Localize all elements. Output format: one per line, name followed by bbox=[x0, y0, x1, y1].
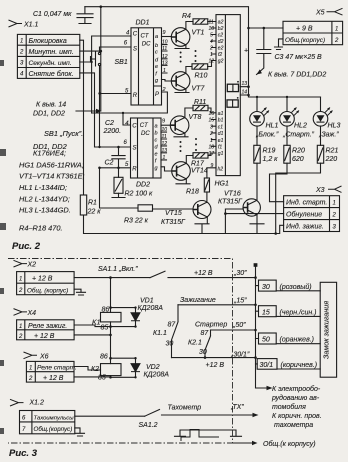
svg-text:Общ.(корпус): Общ.(корпус) bbox=[285, 36, 325, 44]
svg-text:Замок зажигания: Замок зажигания bbox=[322, 301, 331, 359]
svg-text:(коричнев.): (коричнев.) bbox=[281, 362, 318, 369]
svg-text:Секундн. имп.: Секундн. имп. bbox=[29, 59, 72, 67]
svg-text:e2: e2 bbox=[218, 46, 224, 52]
svg-text:Тахометр: Тахометр bbox=[168, 405, 202, 412]
svg-text:„ТХ”: „ТХ” bbox=[230, 404, 244, 411]
svg-text:a: a bbox=[155, 34, 158, 40]
svg-text:9: 9 bbox=[163, 30, 166, 36]
svg-text:10: 10 bbox=[162, 127, 168, 133]
svg-text:2: 2 bbox=[334, 38, 339, 44]
svg-text:CT: CT bbox=[141, 34, 150, 40]
svg-text:e1: e1 bbox=[218, 138, 224, 144]
svg-text:b2: b2 bbox=[218, 26, 224, 32]
svg-text:30: 30 bbox=[262, 284, 270, 291]
svg-text:c1: c1 bbox=[218, 124, 224, 130]
svg-text:+12 В: +12 В bbox=[206, 362, 225, 369]
svg-text:9: 9 bbox=[162, 119, 165, 125]
svg-text:4: 4 bbox=[210, 39, 213, 45]
svg-text:18: 18 bbox=[209, 145, 215, 151]
svg-text:87: 87 bbox=[201, 330, 210, 337]
svg-text:Реле зажиг.: Реле зажиг. bbox=[28, 323, 67, 330]
svg-text:a2: a2 bbox=[218, 20, 224, 26]
svg-text:C: C bbox=[132, 124, 137, 130]
svg-text:X2: X2 bbox=[27, 262, 37, 269]
svg-text:11: 11 bbox=[162, 46, 167, 52]
svg-text:13: 13 bbox=[162, 60, 168, 66]
svg-text:Общ. (корпус): Общ. (корпус) bbox=[27, 286, 68, 294]
svg-text:Зажигание: Зажигание bbox=[180, 297, 216, 304]
svg-text:+ 12 В: + 12 В bbox=[43, 375, 64, 382]
svg-text:Обнуление: Обнуление bbox=[286, 211, 322, 219]
svg-text:1: 1 bbox=[163, 155, 166, 161]
svg-text:c: c bbox=[155, 138, 158, 144]
svg-text:S: S bbox=[133, 146, 137, 152]
svg-text:„Блок.”: „Блок.” bbox=[255, 132, 279, 139]
svg-text:3: 3 bbox=[210, 124, 213, 130]
svg-text:1: 1 bbox=[335, 27, 338, 33]
svg-text:VT8: VT8 bbox=[189, 114, 202, 121]
svg-text:X5: X5 bbox=[315, 10, 325, 17]
svg-text:b: b bbox=[155, 43, 158, 49]
svg-text:K1: K1 bbox=[92, 320, 101, 327]
svg-text:5: 5 bbox=[210, 33, 213, 39]
svg-text:С1 0,047 мк: С1 0,047 мк bbox=[33, 11, 72, 18]
svg-text:HL2: HL2 bbox=[294, 123, 307, 130]
svg-text:c: c bbox=[155, 50, 158, 56]
svg-text:HL2 L-1344YD;: HL2 L-1344YD; bbox=[19, 195, 70, 204]
svg-text:SB1 „Пуск”.: SB1 „Пуск”. bbox=[44, 129, 83, 138]
svg-text:R19: R19 bbox=[263, 148, 276, 155]
svg-text:Стартер: Стартер bbox=[195, 322, 227, 329]
svg-text:С3 47 мк×25 В: С3 47 мк×25 В bbox=[275, 54, 323, 61]
svg-text:„30”: „30” bbox=[233, 270, 247, 277]
svg-text:КД208А: КД208А bbox=[144, 372, 170, 379]
svg-text:R: R bbox=[133, 93, 138, 99]
svg-text:g2: g2 bbox=[218, 59, 224, 65]
svg-text:2: 2 bbox=[162, 87, 166, 93]
svg-text:R4: R4 bbox=[182, 13, 191, 20]
svg-text:1: 1 bbox=[210, 138, 213, 144]
svg-text:VT1–VT14 КТ361Е;: VT1–VT14 КТ361Е; bbox=[19, 172, 85, 181]
svg-text:14: 14 bbox=[242, 89, 248, 95]
svg-text:b: b bbox=[155, 131, 158, 137]
svg-text:SB1: SB1 bbox=[115, 59, 128, 66]
svg-text:DD1: DD1 bbox=[136, 20, 150, 27]
svg-text:HL1: HL1 bbox=[266, 123, 279, 130]
svg-text:Тахоимпульсы: Тахоимпульсы bbox=[34, 416, 75, 422]
svg-text:рудованию ав-: рудованию ав- bbox=[271, 394, 320, 402]
svg-text:b1: b1 bbox=[218, 118, 224, 124]
svg-text:тахометра: тахометра bbox=[274, 422, 313, 429]
svg-text:Рис. 2: Рис. 2 bbox=[12, 241, 41, 252]
svg-text:P: P bbox=[155, 92, 159, 98]
svg-text:КТ315Г: КТ315Г bbox=[161, 219, 186, 226]
svg-text:К электрообо-: К электрообо- bbox=[272, 385, 321, 393]
svg-text:DD1, DD2: DD1, DD2 bbox=[33, 111, 65, 118]
svg-text:d1: d1 bbox=[218, 131, 224, 137]
svg-text:R21: R21 bbox=[326, 148, 339, 155]
svg-text:11: 11 bbox=[209, 20, 214, 26]
svg-text:HL3 L-1344GD.: HL3 L-1344GD. bbox=[19, 206, 71, 215]
svg-text:С2: С2 bbox=[105, 120, 114, 127]
svg-text:X3: X3 bbox=[315, 187, 325, 194]
svg-text:SA1.1 „Вкл.”: SA1.1 „Вкл.” bbox=[98, 266, 138, 273]
svg-text:13: 13 bbox=[162, 148, 168, 154]
svg-text:Общ.(корпус): Общ.(корпус) bbox=[34, 426, 73, 433]
svg-text:„15”: „15” bbox=[233, 298, 247, 305]
svg-text:22 к: 22 к bbox=[87, 209, 102, 216]
svg-text:HL1 L-1344ID;: HL1 L-1344ID; bbox=[19, 183, 67, 192]
svg-text:R4–R18 470.: R4–R18 470. bbox=[19, 224, 63, 233]
svg-text:+: + bbox=[244, 48, 248, 55]
svg-text:10: 10 bbox=[162, 40, 168, 46]
svg-text:h2: h2 bbox=[218, 166, 224, 172]
svg-text:R: R bbox=[132, 166, 137, 172]
svg-text:2: 2 bbox=[19, 50, 24, 56]
svg-text:„50”: „50” bbox=[232, 322, 246, 329]
svg-text:X1.1: X1.1 bbox=[23, 22, 39, 29]
svg-text:1: 1 bbox=[163, 68, 166, 74]
svg-text:томобиля: томобиля bbox=[272, 403, 306, 411]
svg-text:Минутн. имп.: Минутн. имп. bbox=[29, 49, 74, 56]
svg-text:X4: X4 bbox=[27, 310, 37, 317]
svg-text:d2: d2 bbox=[218, 39, 224, 45]
svg-text:2: 2 bbox=[332, 213, 337, 219]
svg-text:Рис. 3: Рис. 3 bbox=[9, 448, 38, 459]
svg-text:R10: R10 bbox=[195, 73, 208, 80]
svg-text:620: 620 bbox=[292, 156, 304, 163]
svg-text:К2.1: К2.1 bbox=[188, 340, 202, 347]
svg-text:VT15: VT15 bbox=[165, 210, 182, 217]
svg-text:30: 30 bbox=[199, 349, 207, 356]
svg-text:+12 В: +12 В bbox=[194, 270, 213, 277]
svg-text:9: 9 bbox=[211, 163, 214, 169]
svg-text:86: 86 bbox=[102, 307, 110, 314]
svg-text:11: 11 bbox=[162, 134, 167, 140]
svg-text:Реле старт.: Реле старт. bbox=[37, 365, 77, 372]
svg-text:50: 50 bbox=[262, 337, 270, 344]
svg-text:220: 220 bbox=[325, 156, 338, 163]
svg-text:85: 85 bbox=[98, 375, 106, 382]
svg-text:1: 1 bbox=[19, 277, 22, 283]
svg-text:DC: DC bbox=[141, 131, 150, 137]
svg-text:„Старт.”: „Старт.” bbox=[282, 132, 315, 139]
svg-text:(розовый): (розовый) bbox=[280, 283, 312, 291]
svg-text:16: 16 bbox=[209, 111, 215, 117]
svg-text:HG1 DA56-11RWA;: HG1 DA56-11RWA; bbox=[19, 161, 84, 170]
svg-text:a: a bbox=[155, 124, 158, 130]
svg-text:+ 12 В: + 12 В bbox=[32, 276, 53, 283]
svg-text:КТ315Г: КТ315Г bbox=[218, 199, 243, 206]
svg-text:Инд. зажиг.: Инд. зажиг. bbox=[286, 223, 324, 231]
svg-text:1: 1 bbox=[29, 366, 32, 372]
svg-text:1: 1 bbox=[210, 52, 213, 58]
svg-text:„Заж.”: „Заж.” bbox=[318, 132, 339, 139]
svg-text:С2: С2 bbox=[105, 160, 114, 167]
svg-text:12: 12 bbox=[209, 59, 215, 65]
svg-text:12: 12 bbox=[162, 54, 168, 60]
svg-text:VT16: VT16 bbox=[224, 191, 241, 198]
svg-text:15: 15 bbox=[209, 118, 215, 124]
svg-text:C: C bbox=[133, 32, 138, 38]
svg-text:1,2 к: 1,2 к bbox=[263, 156, 279, 163]
svg-text:HL3: HL3 bbox=[328, 123, 341, 130]
svg-text:Блокировка: Блокировка bbox=[29, 38, 67, 45]
svg-text:e: e bbox=[155, 151, 158, 157]
svg-text:Инд. старт.: Инд. старт. bbox=[286, 199, 327, 207]
svg-text:87: 87 bbox=[168, 322, 177, 329]
svg-text:86: 86 bbox=[100, 354, 108, 361]
svg-text:VD1: VD1 bbox=[140, 298, 154, 305]
svg-text:Снятие блок.: Снятие блок. bbox=[29, 70, 74, 78]
svg-text:f1: f1 bbox=[218, 145, 222, 151]
svg-text:2: 2 bbox=[28, 376, 33, 382]
svg-text:S: S bbox=[133, 47, 137, 53]
svg-text:2: 2 bbox=[18, 334, 23, 340]
svg-text:a1: a1 bbox=[218, 111, 224, 117]
svg-text:VT1: VT1 bbox=[192, 30, 205, 37]
svg-text:DC: DC bbox=[142, 42, 151, 48]
svg-text:(черн./син.): (черн./син.) bbox=[280, 310, 317, 317]
svg-text:Общ.(к корпусу): Общ.(к корпусу) bbox=[263, 440, 316, 448]
svg-text:КД208А: КД208А bbox=[138, 305, 164, 312]
svg-text:1: 1 bbox=[19, 324, 22, 330]
svg-text:17: 17 bbox=[209, 151, 215, 157]
svg-text:К1.1: К1.1 bbox=[153, 330, 167, 337]
svg-text:„30/1”: „30/1” bbox=[230, 352, 250, 359]
svg-text:X6: X6 bbox=[39, 354, 49, 361]
svg-text:X1.2: X1.2 bbox=[29, 400, 45, 407]
svg-text:VT7: VT7 bbox=[192, 86, 206, 93]
svg-text:R1: R1 bbox=[88, 200, 97, 207]
svg-text:15: 15 bbox=[262, 310, 270, 317]
svg-text:К коричн. пров.: К коричн. пров. bbox=[272, 413, 322, 420]
svg-text:1: 1 bbox=[20, 39, 23, 45]
svg-text:SA1.2: SA1.2 bbox=[139, 422, 158, 429]
svg-text:30/1: 30/1 bbox=[260, 362, 274, 369]
svg-text:R2 100 к: R2 100 к bbox=[125, 191, 154, 198]
svg-text:30: 30 bbox=[166, 341, 174, 348]
svg-text:+ 12 В: + 12 В bbox=[34, 333, 55, 340]
svg-text:1: 1 bbox=[333, 201, 336, 207]
svg-text:12: 12 bbox=[162, 141, 168, 147]
svg-text:2200.: 2200. bbox=[103, 128, 122, 135]
svg-text:R20: R20 bbox=[292, 148, 305, 155]
svg-text:g1: g1 bbox=[218, 151, 224, 157]
svg-text:DD2: DD2 bbox=[136, 182, 150, 189]
svg-text:К выв. 14: К выв. 14 bbox=[36, 102, 66, 109]
svg-text:2: 2 bbox=[209, 46, 213, 52]
svg-text:R3 22 к: R3 22 к bbox=[124, 218, 149, 225]
svg-text:85: 85 bbox=[101, 325, 109, 332]
svg-text:VD2: VD2 bbox=[146, 364, 160, 371]
svg-text:2: 2 bbox=[18, 288, 23, 294]
svg-text:К выв. 7 DD1,DD2: К выв. 7 DD1,DD2 bbox=[268, 72, 326, 79]
svg-text:13: 13 bbox=[242, 81, 248, 87]
svg-text:HG1: HG1 bbox=[215, 181, 230, 188]
svg-text:+ 9 В: + 9 В bbox=[296, 26, 313, 33]
svg-text:(оранжев.): (оранжев.) bbox=[280, 337, 315, 344]
svg-text:CT: CT bbox=[140, 123, 149, 129]
svg-text:e: e bbox=[155, 64, 158, 70]
svg-text:2: 2 bbox=[209, 131, 213, 137]
svg-text:f2: f2 bbox=[218, 52, 222, 58]
svg-text:R18: R18 bbox=[186, 189, 199, 196]
svg-text:К176ИЕ4;: К176ИЕ4; bbox=[33, 149, 66, 158]
svg-text:R11: R11 bbox=[194, 99, 206, 106]
svg-text:VT14: VT14 bbox=[191, 168, 208, 175]
svg-text:c2: c2 bbox=[218, 33, 224, 39]
svg-text:10: 10 bbox=[209, 26, 215, 32]
svg-text:К2: К2 bbox=[91, 366, 99, 373]
